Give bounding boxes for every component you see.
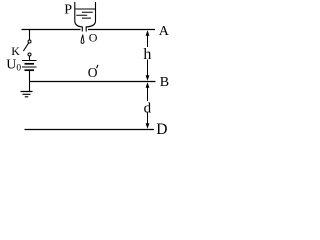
switch K top contact [28,40,31,43]
svg-text:h: h [143,46,151,63]
droplet at O [81,35,84,44]
wire from plate A down to switch [29,30,31,40]
plate A [22,29,156,31]
svg-text:D: D [156,121,167,138]
dimension arrow d (B to D) [147,87,149,125]
wire from switch to battery [29,56,31,60]
svg-text:O: O [88,65,98,80]
plate B (O') [29,81,156,83]
svg-text:P: P [64,3,72,18]
svg-text:O: O [89,31,98,45]
svg-text:K: K [11,44,20,58]
battery U0 plate 2 (short) [25,63,35,65]
ground [21,92,33,97]
battery U0 plate 4 (short) [25,69,35,71]
svg-text:U0: U0 [6,57,21,73]
svg-text:A: A [159,24,170,39]
battery U0 plate 3 (long) [22,66,37,68]
svg-text:d: d [144,101,152,117]
svg-text:B: B [160,75,169,90]
vessel P [75,2,96,32]
switch K blade [23,43,28,51]
switch K bottom contact [28,53,31,56]
plate D [25,129,155,131]
dimension arrow h (A to B) [147,35,149,77]
wire from battery to plate B junction and ground [29,71,31,92]
battery U0 plate 1 (long) [22,60,37,62]
liquid hatch dashes [76,12,93,18]
liquid surface in vessel [75,8,95,10]
